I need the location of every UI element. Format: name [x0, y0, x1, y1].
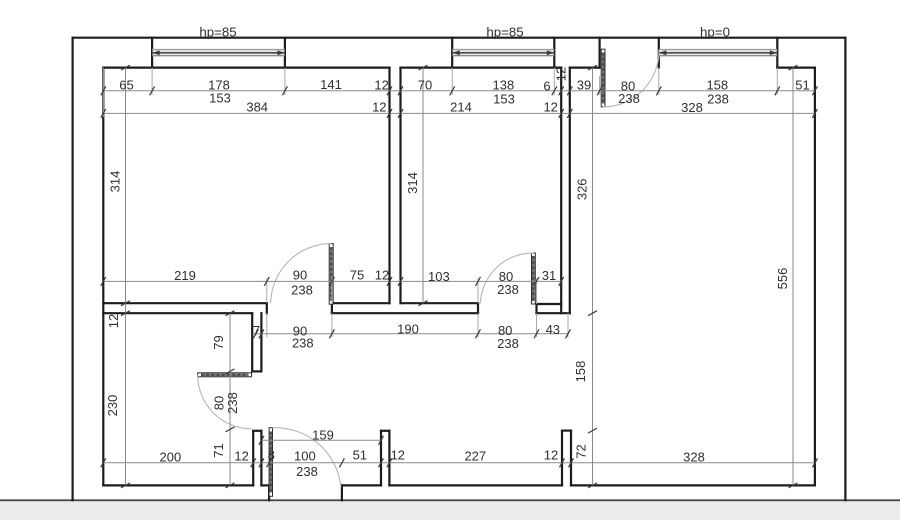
- svg-text:12: 12: [374, 78, 388, 93]
- row5 ticks: [101, 458, 106, 467]
- x=419.5 ticks: [419, 65, 428, 70]
- wall: hall stub3 top cap: [562, 430, 571, 432]
- row2 ticks: [101, 109, 106, 118]
- svg-text:79: 79: [211, 335, 226, 349]
- svg-text:238: 238: [296, 464, 318, 479]
- wall: partition between room1 and room2 right face: [399, 68, 401, 304]
- wall: hall top wall, top face left segment: [103, 302, 266, 304]
- wire: top inner face room2: [401, 66, 562, 68]
- svg-text:238: 238: [292, 336, 314, 351]
- 159 line ticks: [259, 436, 264, 445]
- svg-text:12: 12: [375, 268, 389, 283]
- door D3 swing arc: [198, 375, 252, 429]
- wall: stub below bathroom door top cap: [253, 430, 261, 432]
- wall: hall top wall, bottom face right segment: [332, 312, 478, 314]
- svg-text:238: 238: [618, 91, 640, 106]
- wire: window W2 left jamb: [451, 38, 453, 68]
- wire: top inner face right corner block: [777, 66, 815, 68]
- svg-text:7: 7: [253, 323, 260, 338]
- wall: corridor wall bottom cap: [537, 312, 570, 314]
- wall: door D1 left jamb: [266, 303, 268, 313]
- svg-text:65: 65: [119, 78, 133, 93]
- bottom outer wall face full-width line: [0, 499, 900, 501]
- wire: right inner wall face: [814, 68, 816, 486]
- row4 ticks: [253, 329, 258, 338]
- door D1 swing arc: [271, 244, 332, 303]
- wall: bathroom thin wall right face: [260, 313, 262, 371]
- door D4 swing arc: [273, 428, 341, 487]
- door D1 leaf (room1 to hall): [329, 244, 333, 305]
- wire: window W1 right jamb: [284, 38, 286, 68]
- door D4 entrance leaf: [269, 428, 272, 497]
- vertical dim line x=125.5 (314 / 230): [125, 68, 127, 486]
- wall: bathroom thin wall bottom cap at door head: [252, 370, 261, 372]
- wall: stub below bathroom door right face: [260, 431, 262, 486]
- x=793 ticks: [789, 65, 798, 70]
- svg-text:31: 31: [542, 268, 556, 283]
- svg-text:hp=85: hp=85: [486, 24, 523, 39]
- svg-text:238: 238: [497, 336, 519, 351]
- wall: bottom wall top face room3 segment: [571, 484, 815, 486]
- window W3 hp=0 balcony glazing: [659, 50, 778, 56]
- wire: left outer wall face: [71, 38, 73, 501]
- svg-text:51: 51: [795, 78, 809, 93]
- svg-text:12: 12: [234, 449, 248, 464]
- svg-text:hp=85: hp=85: [199, 24, 236, 39]
- svg-text:138: 138: [493, 78, 515, 93]
- svg-text:153: 153: [209, 91, 231, 106]
- wire: top inner face pier room3: [570, 66, 600, 68]
- x=230 ticks: [226, 311, 235, 316]
- wire: window W2 right jamb: [553, 38, 555, 68]
- svg-text:8: 8: [268, 448, 275, 463]
- wire: top outer wall face: [73, 37, 846, 39]
- wall: entrance door left jamb: [268, 485, 270, 500]
- svg-text:6: 6: [543, 79, 550, 94]
- svg-text:12: 12: [106, 314, 121, 328]
- wall: bottom wall top face kitchen segment: [103, 484, 253, 486]
- wall: hall stub2 right face: [388, 431, 390, 486]
- svg-text:141: 141: [320, 77, 342, 92]
- door DB balcony door leaf: [601, 49, 605, 107]
- wall: hall stub2 left face: [380, 431, 382, 486]
- window W2 hp=85: [452, 50, 554, 56]
- svg-text:100: 100: [294, 449, 316, 464]
- wall: partition between room1 and room2 left face: [388, 68, 390, 304]
- svg-text:12: 12: [554, 67, 569, 81]
- wire: right outer wall face: [844, 38, 846, 501]
- wall: bathroom thin wall left face: [251, 313, 253, 371]
- svg-text:159: 159: [312, 427, 334, 442]
- dimension row4 line y=333.8: [253, 333, 568, 335]
- extension lines: [103, 68, 777, 337]
- wall: stub left jamb vertical: [535, 304, 537, 313]
- vertical dim line x=230 (79/80/71): [229, 313, 231, 485]
- door D2 leaf (room2 to hall): [532, 253, 536, 304]
- svg-text:556: 556: [775, 268, 790, 290]
- wire: balcony door left jamb: [598, 38, 600, 68]
- vertical dim line x=419.5 (314 room2): [422, 68, 424, 304]
- svg-text:153: 153: [493, 91, 515, 106]
- svg-text:71: 71: [211, 443, 226, 457]
- x=592 ticks: [588, 65, 597, 70]
- x=125.5 ticks: [121, 65, 130, 70]
- wire: window W1 left jamb: [151, 38, 153, 68]
- svg-text:12: 12: [372, 99, 386, 114]
- svg-text:219: 219: [174, 268, 196, 283]
- wall: bottom wall top face middle segment: [389, 484, 562, 486]
- wall: hall stub2 top cap: [381, 430, 389, 432]
- svg-text:39: 39: [577, 77, 591, 92]
- svg-text:70: 70: [418, 78, 432, 93]
- svg-text:238: 238: [497, 282, 519, 297]
- wall: corridor wall right face: [569, 68, 571, 314]
- wall: hall top wall, bottom face left segment: [103, 312, 252, 314]
- svg-text:190: 190: [397, 322, 419, 337]
- wall: entrance door right jamb: [341, 485, 343, 500]
- svg-text:12: 12: [391, 448, 405, 463]
- door D3 leaf (bathroom, horizontal): [198, 373, 252, 377]
- svg-text:hp=0: hp=0: [700, 24, 730, 39]
- svg-text:326: 326: [575, 178, 590, 200]
- svg-text:214: 214: [450, 99, 472, 114]
- wire: top inner face under window W1 room1: [103, 66, 389, 68]
- dimension row2 line y=112.6: [103, 112, 815, 114]
- svg-text:238: 238: [291, 283, 313, 298]
- svg-text:90: 90: [293, 268, 307, 283]
- wall: hall top wall, top face mid segment: [332, 302, 390, 304]
- svg-text:328: 328: [681, 100, 703, 115]
- wall: door D1 right jamb: [331, 303, 333, 313]
- wall: hall stub3 left face: [561, 431, 563, 486]
- door DB swing arc: [603, 50, 659, 107]
- dimension line 159 y=440.3: [261, 439, 381, 441]
- wall: door D2 left jamb: [477, 303, 479, 313]
- wire: window W3 right jamb: [776, 38, 778, 68]
- svg-text:238: 238: [225, 392, 240, 414]
- svg-text:314: 314: [405, 172, 420, 194]
- svg-text:72: 72: [574, 444, 589, 458]
- dimension ticks: [101, 65, 818, 488]
- wall: hall stub3 right face: [570, 431, 572, 486]
- svg-text:75: 75: [350, 268, 364, 283]
- svg-text:384: 384: [246, 99, 268, 114]
- wall: stub left of corridor wall top face: [537, 303, 562, 305]
- svg-text:158: 158: [706, 78, 728, 93]
- vertical dim line x=793 (556): [792, 68, 794, 486]
- svg-text:227: 227: [464, 448, 486, 463]
- svg-text:314: 314: [108, 171, 123, 193]
- window W1 hp=85: [152, 50, 285, 56]
- wire: left inner wall face: [102, 68, 104, 486]
- wall: bottom wall top face segment right of entrance: [342, 484, 381, 486]
- svg-text:328: 328: [683, 450, 705, 465]
- vertical dim line x=592 (326/158/72): [592, 68, 594, 486]
- bottom gray band: [0, 502, 900, 520]
- dimension row3 line y=280.7: [103, 280, 561, 282]
- wall: hall top wall, top face right segment: [401, 302, 479, 304]
- svg-text:12: 12: [543, 99, 557, 114]
- wire: window W3 left jamb: [658, 38, 660, 68]
- svg-text:238: 238: [707, 92, 729, 107]
- wall: corridor wall left face: [560, 68, 562, 314]
- svg-text:12: 12: [544, 448, 558, 463]
- dimension row1 line y=90.8: [103, 90, 815, 92]
- svg-text:230: 230: [105, 395, 120, 417]
- wall: stub below bathroom door left face: [252, 431, 254, 486]
- svg-text:43: 43: [546, 322, 560, 337]
- row3 ticks: [101, 277, 106, 286]
- svg-text:158: 158: [573, 361, 588, 383]
- svg-text:103: 103: [428, 269, 450, 284]
- svg-text:200: 200: [160, 450, 182, 465]
- row1 ticks: [101, 86, 106, 95]
- svg-text:51: 51: [353, 448, 367, 463]
- wall: bottom wall top face short piece left of entrance: [261, 484, 269, 486]
- dimension row5 line y=462: [103, 462, 815, 464]
- door D2 swing arc: [480, 253, 533, 303]
